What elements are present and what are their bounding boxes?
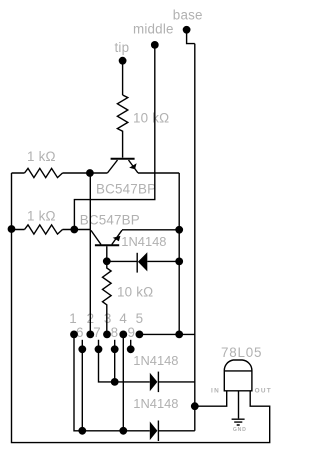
svg-text:tip: tip xyxy=(115,40,130,55)
pin 3 dot xyxy=(103,331,111,339)
junction dot railC emitter xyxy=(175,226,183,234)
svg-text:middle: middle xyxy=(133,22,174,37)
junction dot left rail xyxy=(8,225,16,233)
diode D1 1N4148 cathode bar xyxy=(136,253,138,273)
diode D2 1N4148 cathode bar xyxy=(157,372,159,393)
svg-text:78L05: 78L05 xyxy=(221,345,262,360)
pin 4 dot xyxy=(119,331,127,339)
transistor Q2 arrow xyxy=(113,236,121,241)
svg-text:9: 9 xyxy=(128,325,136,340)
wire pin4 down xyxy=(122,334,124,430)
svg-text:4: 4 xyxy=(119,311,127,326)
diode D2 1N4148 triangle xyxy=(150,373,158,392)
diode D3 1N4148 cathode bar xyxy=(157,421,159,442)
svg-text:8: 8 xyxy=(111,325,119,340)
resistor R2 1k xyxy=(25,168,63,177)
transistor Q2 BC547BP xyxy=(95,244,119,246)
wire tip xyxy=(122,64,124,95)
junction dot regulator in xyxy=(191,402,199,410)
wire regulator input xyxy=(195,391,227,406)
node base wire xyxy=(187,33,195,44)
diode D1 1N4148 triangle xyxy=(138,252,147,271)
wire T2 emitter row xyxy=(122,229,179,231)
svg-text:OUT: OUT xyxy=(255,387,272,394)
pin 2 dot xyxy=(86,331,94,339)
wire diode3 out xyxy=(158,430,194,432)
junction dot T1 left xyxy=(86,169,94,177)
junction dot railC pin5 xyxy=(175,331,183,339)
svg-text:7: 7 xyxy=(93,325,101,340)
wire 1k2 row xyxy=(12,229,92,231)
wire pin8 stub xyxy=(114,340,116,382)
svg-text:1N4148: 1N4148 xyxy=(133,396,178,411)
ground stem xyxy=(238,391,240,419)
svg-text:1 kΩ: 1 kΩ xyxy=(27,209,56,224)
resistor R4 10k xyxy=(103,261,112,334)
svg-text:5: 5 xyxy=(136,311,144,326)
ground bars xyxy=(232,419,245,425)
resistor R3 1k xyxy=(25,225,63,234)
wire rail pin2 xyxy=(89,173,91,334)
wire diode1 row xyxy=(107,260,179,262)
svg-text:10 kΩ: 10 kΩ xyxy=(117,285,153,300)
transistor Q1 BC547BP xyxy=(111,158,135,160)
wire left rail xyxy=(12,173,270,443)
diode D3 1N4148 triangle xyxy=(150,422,158,441)
wire pin5 row xyxy=(139,333,194,335)
svg-text:base: base xyxy=(173,7,203,22)
wire pin6 stub xyxy=(81,340,83,431)
svg-text:1N4148: 1N4148 xyxy=(133,353,178,368)
junction dot pin4 bottom xyxy=(119,427,127,435)
svg-text:IN: IN xyxy=(211,387,220,394)
junction dot pin8 bottom xyxy=(111,378,119,386)
svg-text:10 kΩ: 10 kΩ xyxy=(133,110,169,125)
junction dot 1k right xyxy=(70,226,78,234)
wire diode2 out xyxy=(158,381,194,383)
pin 6 dot xyxy=(78,345,86,353)
junction dot T2 base xyxy=(103,257,111,265)
svg-text:GND: GND xyxy=(233,427,247,433)
pin 8 dot xyxy=(111,345,119,353)
svg-text:1: 1 xyxy=(69,311,77,326)
pin 7 dot xyxy=(95,345,103,353)
regulator U1 78L05 body xyxy=(224,360,252,391)
node middle dot xyxy=(151,41,159,49)
pin 9 dot xyxy=(127,345,135,353)
wire right vertical rail C xyxy=(178,173,180,334)
wire pin9 stub xyxy=(130,340,132,350)
svg-text:3: 3 xyxy=(104,311,112,326)
node base dot xyxy=(183,26,191,34)
svg-text:BC547BP: BC547BP xyxy=(80,213,140,228)
wire emitter T1 row xyxy=(12,172,180,174)
svg-text:BC547BP: BC547BP xyxy=(96,182,156,197)
pin 5 dot xyxy=(136,331,144,339)
junction dot railC diode xyxy=(175,258,183,266)
resistor R1 10k xyxy=(117,95,127,158)
pin 1 dot xyxy=(70,331,78,339)
svg-text:1N4148: 1N4148 xyxy=(121,234,166,249)
wire middle rail xyxy=(74,48,154,230)
junction dot pin6 bottom xyxy=(78,427,86,435)
wire pin1 down xyxy=(74,334,150,430)
wire base rail xyxy=(194,44,196,431)
transistor Q1 arrow xyxy=(129,163,136,169)
wire pin7 stub xyxy=(99,340,150,382)
svg-text:1 kΩ: 1 kΩ xyxy=(27,149,56,164)
node tip dot xyxy=(119,57,127,65)
